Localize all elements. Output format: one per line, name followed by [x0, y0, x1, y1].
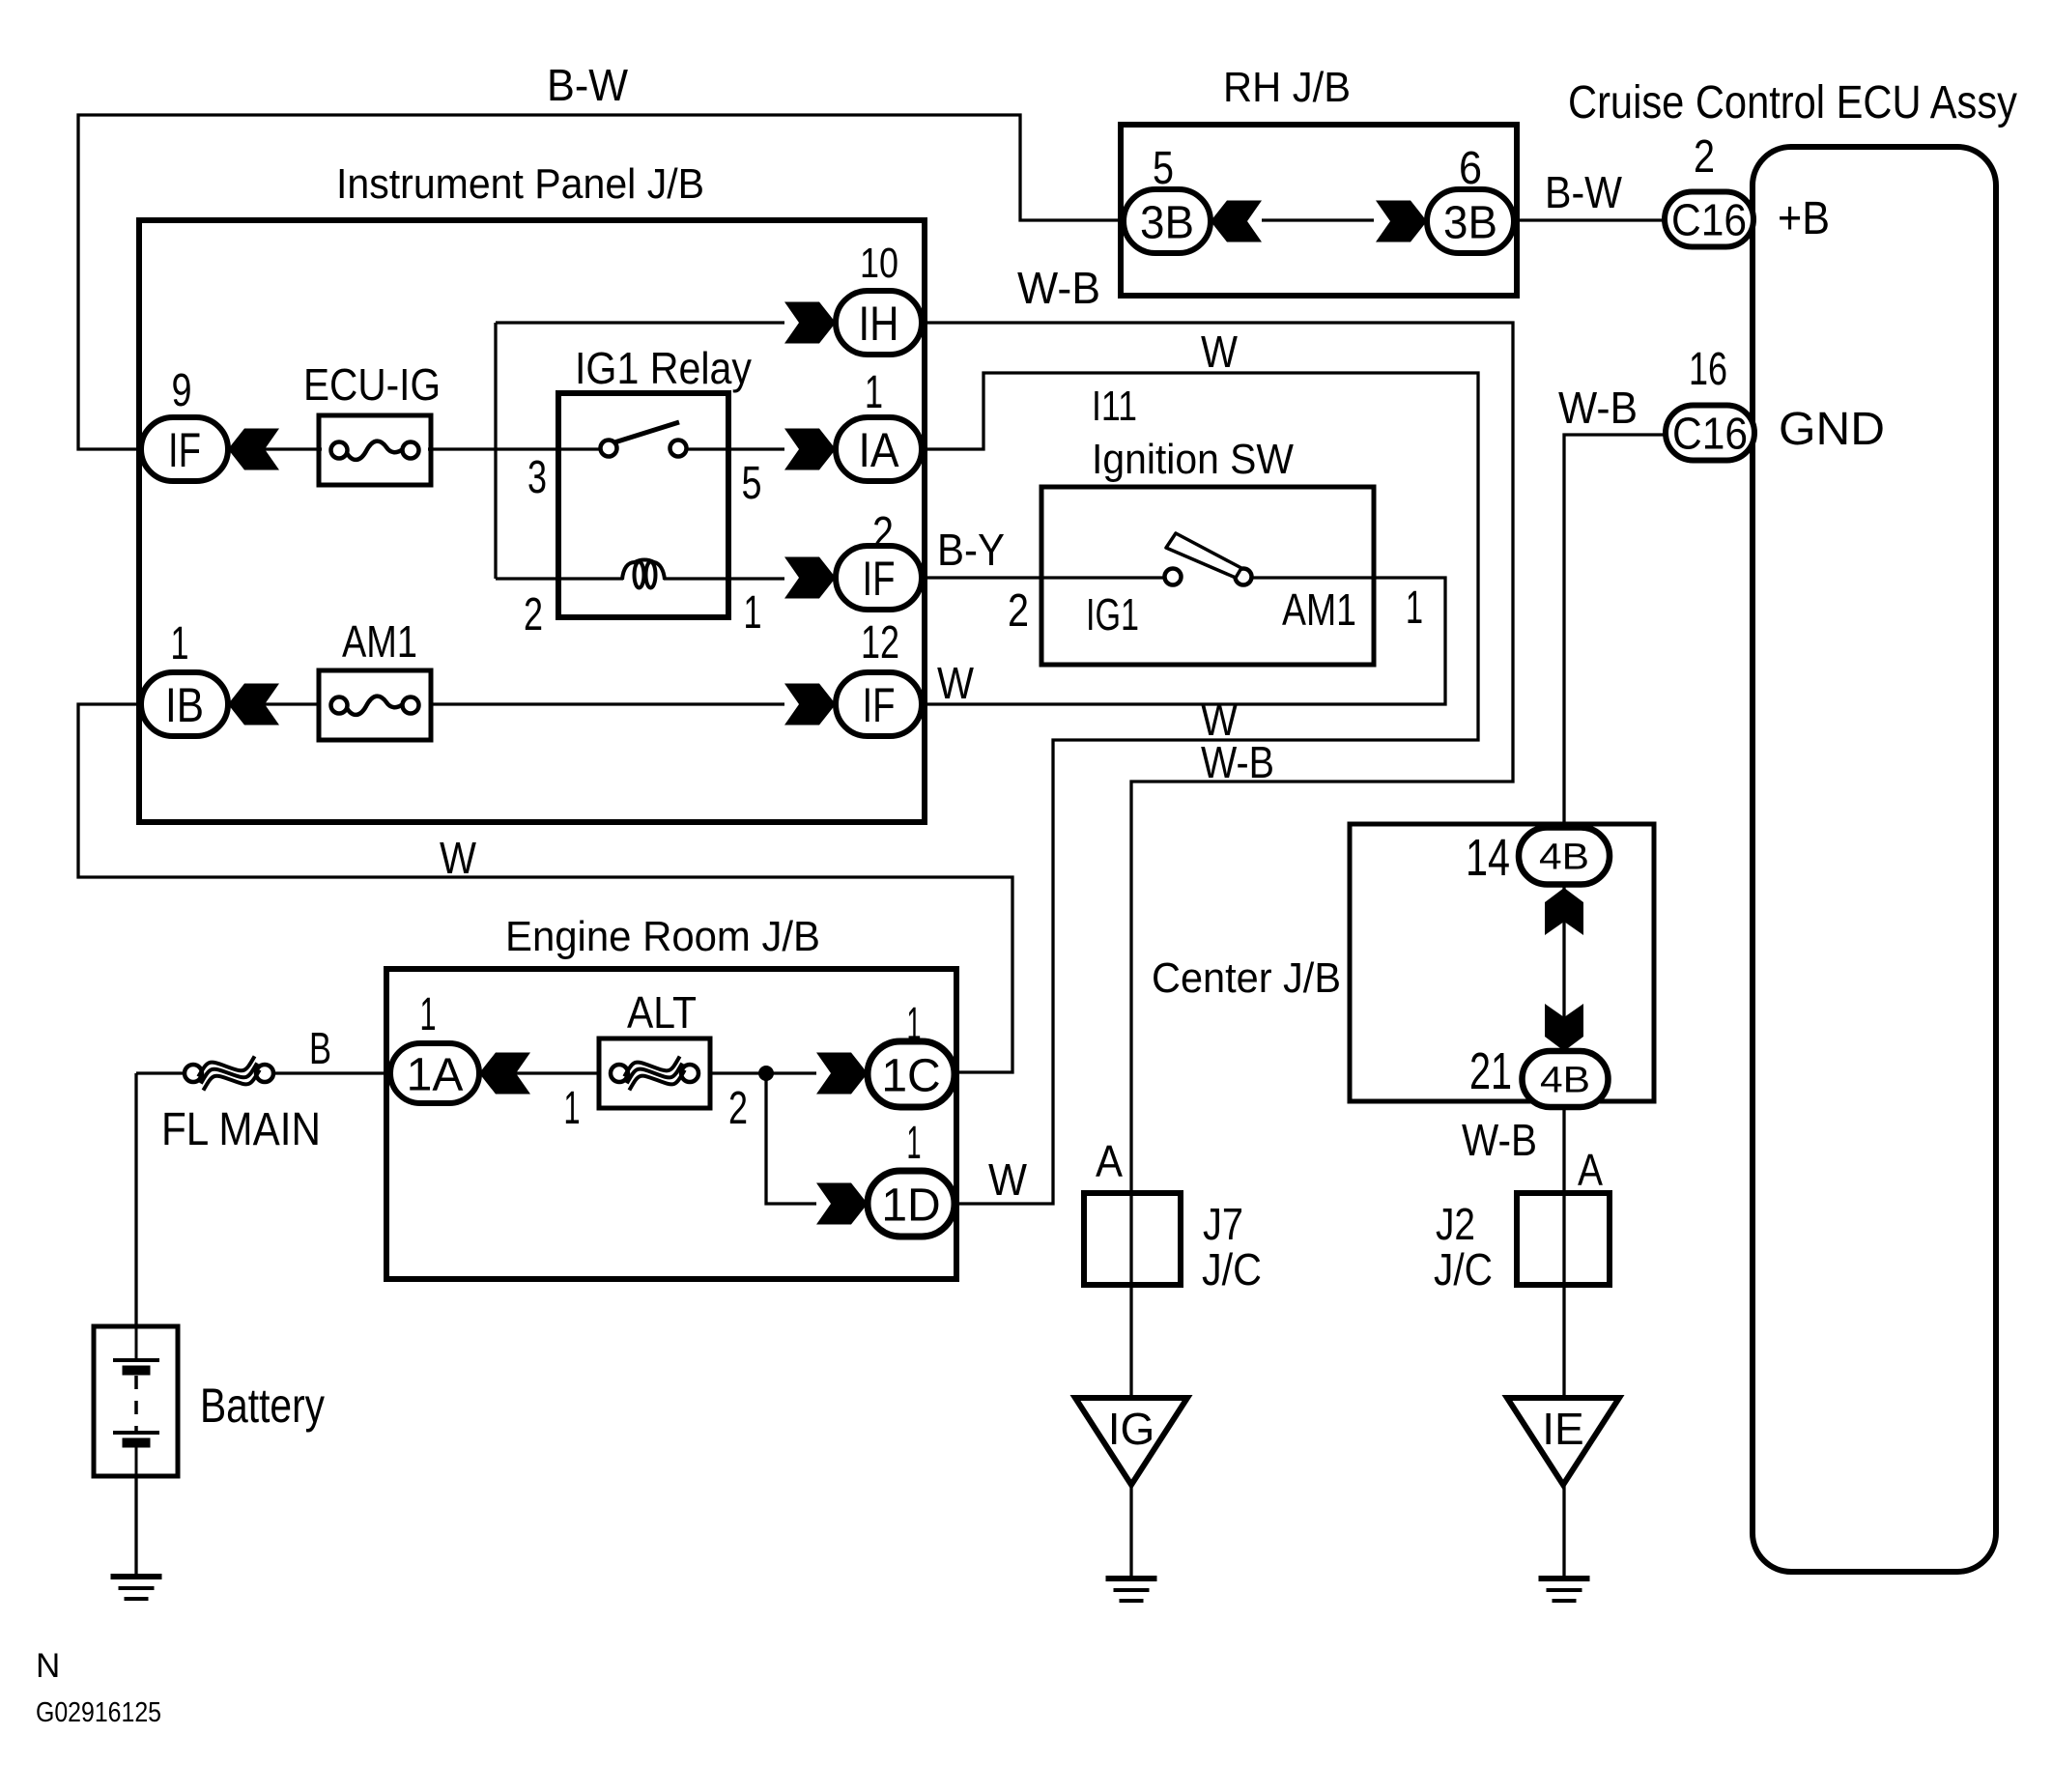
svg-text:2: 2 — [872, 508, 894, 559]
svg-text:1: 1 — [907, 999, 922, 1050]
svg-text:N: N — [36, 1647, 60, 1685]
svg-text:Battery: Battery — [200, 1379, 325, 1433]
svg-text:A: A — [1096, 1136, 1123, 1186]
svg-text:6: 6 — [1459, 143, 1482, 194]
svg-text:I11: I11 — [1092, 383, 1137, 430]
svg-text:12: 12 — [861, 617, 899, 668]
svg-text:RH J/B: RH J/B — [1223, 64, 1351, 111]
svg-text:W: W — [937, 658, 975, 708]
svg-text:5: 5 — [742, 458, 762, 509]
svg-text:J2: J2 — [1436, 1199, 1475, 1249]
svg-text:+B: +B — [1778, 193, 1830, 244]
svg-text:AM1: AM1 — [342, 616, 417, 667]
svg-text:IF: IF — [863, 678, 896, 732]
svg-text:J/C: J/C — [1202, 1244, 1262, 1294]
svg-text:J7: J7 — [1203, 1199, 1243, 1249]
svg-text:1: 1 — [171, 618, 189, 669]
svg-text:Engine Room J/B: Engine Room J/B — [505, 913, 820, 960]
svg-text:B-W: B-W — [1545, 167, 1623, 217]
svg-text:IE: IE — [1542, 1404, 1583, 1454]
svg-text:IG1: IG1 — [1086, 589, 1139, 640]
svg-text:2: 2 — [728, 1083, 748, 1134]
svg-text:W-B: W-B — [1017, 263, 1100, 313]
svg-text:G02916125: G02916125 — [36, 1697, 161, 1728]
svg-text:5: 5 — [1153, 143, 1174, 194]
svg-text:ALT: ALT — [627, 987, 697, 1038]
svg-text:C16: C16 — [1671, 195, 1747, 245]
svg-text:W: W — [988, 1154, 1028, 1205]
svg-text:IG1 Relay: IG1 Relay — [575, 343, 752, 393]
svg-text:1C: 1C — [881, 1050, 940, 1101]
svg-text:Cruise Control ECU Assy: Cruise Control ECU Assy — [1568, 77, 2017, 128]
svg-text:1: 1 — [1406, 583, 1423, 634]
svg-text:ECU-IG: ECU-IG — [303, 359, 441, 410]
svg-text:1: 1 — [744, 587, 762, 639]
svg-text:16: 16 — [1689, 344, 1727, 395]
svg-text:14: 14 — [1466, 829, 1510, 887]
svg-text:4B: 4B — [1540, 1061, 1590, 1101]
svg-text:Center J/B: Center J/B — [1152, 954, 1341, 1002]
svg-text:2: 2 — [524, 589, 543, 640]
svg-text:3B: 3B — [1140, 197, 1194, 248]
svg-text:FL MAIN: FL MAIN — [161, 1104, 321, 1155]
svg-text:W: W — [1201, 327, 1239, 377]
svg-text:1D: 1D — [881, 1180, 940, 1231]
svg-text:W-B: W-B — [1462, 1115, 1537, 1165]
svg-text:W-B: W-B — [1201, 737, 1274, 787]
svg-text:C16: C16 — [1672, 409, 1748, 459]
svg-text:9: 9 — [172, 365, 192, 416]
svg-text:1: 1 — [564, 1083, 581, 1134]
svg-text:IH: IH — [859, 297, 899, 351]
svg-text:3B: 3B — [1443, 197, 1497, 248]
svg-text:B-Y: B-Y — [937, 525, 1005, 575]
svg-text:Ignition SW: Ignition SW — [1092, 436, 1294, 483]
svg-text:1A: 1A — [407, 1049, 464, 1100]
svg-text:1: 1 — [865, 367, 883, 418]
svg-text:IG: IG — [1108, 1404, 1155, 1454]
svg-text:21: 21 — [1469, 1042, 1512, 1100]
svg-text:W-B: W-B — [1558, 383, 1638, 433]
svg-text:W: W — [440, 833, 477, 883]
svg-text:IF: IF — [168, 423, 201, 477]
svg-text:2: 2 — [1694, 131, 1715, 183]
svg-text:1: 1 — [907, 1118, 922, 1169]
svg-text:A: A — [1578, 1145, 1603, 1195]
svg-text:AM1: AM1 — [1282, 584, 1356, 635]
svg-text:IA: IA — [859, 423, 900, 477]
svg-text:IB: IB — [165, 678, 204, 732]
svg-text:GND: GND — [1779, 404, 1885, 455]
svg-text:Instrument Panel J/B: Instrument Panel J/B — [336, 160, 704, 208]
svg-text:1: 1 — [420, 989, 437, 1040]
svg-text:3: 3 — [527, 452, 547, 503]
svg-text:J/C: J/C — [1434, 1244, 1493, 1294]
svg-text:IF: IF — [863, 552, 896, 606]
svg-text:B: B — [309, 1023, 331, 1073]
svg-text:4B: 4B — [1539, 838, 1589, 878]
svg-text:2: 2 — [1008, 585, 1029, 637]
svg-text:B-W: B-W — [547, 60, 629, 110]
svg-text:10: 10 — [860, 240, 898, 287]
